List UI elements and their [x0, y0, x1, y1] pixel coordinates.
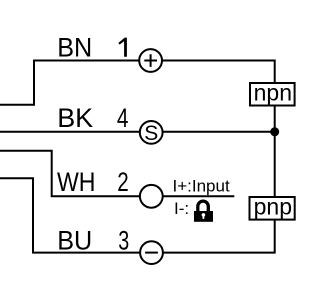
svg-text:BU: BU — [57, 225, 92, 255]
svg-text:pnp: pnp — [254, 193, 292, 219]
pin number 1 — [118, 38, 127, 57]
wire BN: pin stub, up-corner, across to right bus — [0, 61, 275, 105]
svg-text:3: 3 — [118, 225, 129, 255]
terminal circle S (BK 4) — [140, 121, 163, 145]
terminal circle plus (BN 1) — [139, 49, 162, 72]
svg-text:npn: npn — [254, 79, 292, 105]
svg-text:BK: BK — [57, 103, 93, 133]
terminal circle open (WH 2) — [140, 185, 163, 208]
junction dot on right bus at BK — [270, 127, 279, 136]
svg-text:I-:: I-: — [174, 199, 189, 218]
terminal circle minus (BU 3) — [140, 241, 163, 264]
npn output box — [250, 79, 295, 105]
wire right bus between npn and pnp — [274, 106, 276, 197]
wire BU: from pnp bottom, down, across, pin stub — [0, 178, 275, 252]
svg-text:4: 4 — [117, 103, 129, 133]
pnp output box — [250, 193, 295, 219]
svg-text:I+:Input: I+:Input — [173, 177, 230, 196]
wire WH: pin stub, down-corner, across with label line — [0, 151, 234, 197]
svg-text:2: 2 — [117, 167, 129, 197]
svg-text:WH: WH — [57, 167, 96, 197]
svg-text:S: S — [144, 122, 158, 145]
svg-text:BN: BN — [57, 33, 92, 63]
wire BK: pin stub straight across to junction — [0, 131, 275, 133]
padlock icon — [194, 201, 213, 222]
